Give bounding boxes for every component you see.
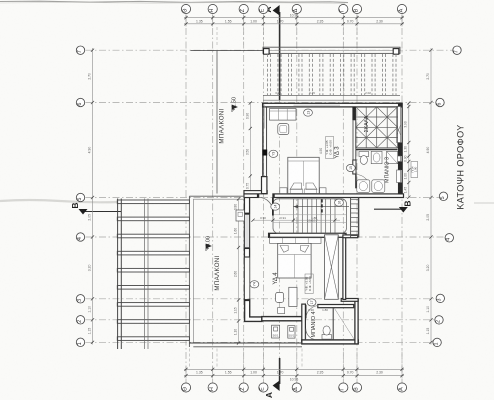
balcony inner dimension [245, 101, 252, 198]
middle spine wall [244, 177, 404, 198]
stair wall stub [352, 107, 355, 121]
section line B-B left [70, 202, 121, 214]
balcony planter box [236, 210, 244, 221]
balcony lower inner dimension [234, 197, 241, 344]
toilet bathroom 4 [322, 326, 331, 339]
bedroom Y∆4 east wall [343, 237, 346, 299]
grid bubble 6 right [436, 98, 444, 106]
staircase lower flight [351, 197, 359, 237]
door bedroom Y∆3 [259, 197, 273, 215]
closet row Y∆4 [270, 238, 321, 244]
section line A-A top [263, 5, 280, 100]
grid bubble Β top [352, 4, 361, 13]
level note box Y∆3 [325, 137, 334, 159]
level note box Y∆4 [305, 274, 314, 294]
lower pergola rail left [118, 199, 122, 350]
grid bubble 3 left [76, 295, 84, 303]
level mark +3.00 [206, 236, 212, 251]
stair south wall [343, 235, 358, 238]
room tag stair [335, 199, 344, 206]
level mark +1.50 [232, 97, 238, 112]
staircase upper flight ΣΚΑΛΑ [356, 107, 398, 148]
planter 2 [288, 326, 295, 338]
desk bedroom Y∆4 [289, 287, 297, 306]
grid bubble 3 right [436, 294, 444, 302]
balcony edge upper [216, 51, 218, 194]
grid bubble Η top [208, 4, 217, 13]
grid bubble Δ top [292, 4, 301, 13]
grid bubble Γ bottom [339, 383, 348, 392]
grid bubble Ε top [259, 4, 268, 13]
section line A-A bottom [264, 358, 280, 398]
pergola post right [393, 49, 399, 55]
right inner dimension line [404, 101, 411, 198]
section line A-A continuation [279, 100, 281, 358]
bathroom 4 north wall [318, 305, 354, 308]
grid bubble 4 right [445, 234, 453, 242]
horizontal grid axes 1-7 [86, 50, 453, 342]
bathroom 4 south wall [302, 340, 358, 344]
witness lines to top dims [217, 27, 357, 46]
room tag corridor [271, 203, 280, 210]
lower pergola rail middle [145, 199, 148, 350]
vertical grid axes Θ-Α [186, 15, 402, 383]
grid bubble Γ top [339, 4, 348, 13]
right dimension line [426, 48, 433, 345]
east step wall [341, 299, 358, 302]
grid bubble 1 left [76, 338, 84, 346]
shelf bathroom 3 [387, 151, 398, 163]
armchair bedroom Y∆3 [278, 124, 289, 135]
grid bubble 5 left [76, 193, 84, 201]
bed bedroom Y∆3 [288, 157, 319, 193]
door bedroom Y∆4 [280, 240, 289, 251]
top dimension lines [184, 13, 404, 26]
grid bubble Δ bottom [292, 383, 301, 392]
grid bubble Ε bottom [259, 383, 268, 392]
bedroom Y∆4 north wall [269, 233, 346, 237]
grid bubble 7 left [76, 46, 84, 54]
shaft with X brace [325, 235, 339, 299]
bathroom 3 north wall [356, 149, 398, 151]
pergola post left [264, 49, 270, 55]
grid bubble Θ bottom [181, 383, 190, 392]
grid bubble 1 right [433, 338, 441, 346]
chair bedroom Y∆4 [276, 292, 284, 302]
toilet bathroom 3 [359, 152, 369, 165]
bedroom Y∆4 south wall [262, 317, 302, 321]
witness lines to bottom dims [189, 349, 402, 367]
grid bubble 5 right [439, 192, 447, 200]
nightstand left Y∆3 [280, 188, 287, 194]
scan fold smudge left [0, 200, 120, 202]
corridor dimension line [251, 216, 340, 222]
grid bubble Β bottom [352, 383, 361, 392]
room tag Y∆3 [269, 150, 278, 157]
room tag bath4 [307, 299, 316, 306]
closet bedroom Y∆3 [270, 109, 297, 121]
right wall of building [397, 103, 403, 197]
pergola bottom rails [263, 95, 400, 100]
room tag closet [304, 109, 313, 116]
shower area bathroom 4 [335, 309, 354, 339]
grid bubble Α bottom [397, 383, 406, 392]
room tag bath3 [346, 164, 355, 171]
left wall of bedroom Y∆3 [263, 103, 267, 194]
top wall window mid line [294, 104, 341, 106]
grid bubble Ζ top [239, 4, 248, 13]
faint line right of title [474, 202, 494, 204]
section line B-B right [374, 200, 413, 212]
nightstand right Y∆3 [320, 188, 326, 194]
door bathroom 4 [306, 305, 318, 319]
balcony-side wall with door [244, 197, 250, 300]
balcony outline lower [189, 196, 302, 347]
bathroom 3 west wall [353, 120, 356, 174]
pergola top rail [191, 47, 401, 53]
left dimension line [88, 48, 95, 345]
window note box right [410, 162, 417, 178]
bottom dimension lines [184, 367, 404, 382]
grid bubble Η bottom [208, 383, 217, 392]
grid bubble 7 right [453, 46, 461, 54]
grid bubble 2 right [435, 316, 443, 324]
grid bubble 4 left [76, 233, 84, 241]
grid bubble Α top [397, 4, 406, 13]
scan torn top edge [0, 1, 348, 2]
corner basin bathroom 4 [306, 329, 315, 340]
bed bedroom Y∆4 [278, 243, 311, 278]
bathroom 4 west wall [302, 304, 306, 341]
planter 1 [272, 325, 280, 338]
shower wall bathroom 4 [332, 308, 334, 340]
grid bubble 2 left [76, 316, 84, 324]
bedroom Y∆4 west corner wall [244, 299, 262, 321]
column marker left wall [262, 150, 267, 156]
stool bedroom Y∆4 [278, 308, 285, 314]
pergola slats (dashed) [268, 54, 397, 95]
grid bubble Θ top [181, 4, 190, 13]
lower pergola slats [117, 200, 189, 340]
bidet bathroom 3 [371, 151, 382, 163]
top wall [263, 103, 402, 107]
door bathroom 3 [356, 175, 370, 189]
grid bubble 6 left [76, 98, 84, 106]
grid bubble Ζ bottom [239, 383, 248, 392]
washbasins bathroom 3 [357, 180, 385, 193]
bathroom 4 east wall [355, 299, 358, 344]
room tag Y∆4 [250, 281, 259, 288]
staircase middle flight [273, 199, 349, 233]
